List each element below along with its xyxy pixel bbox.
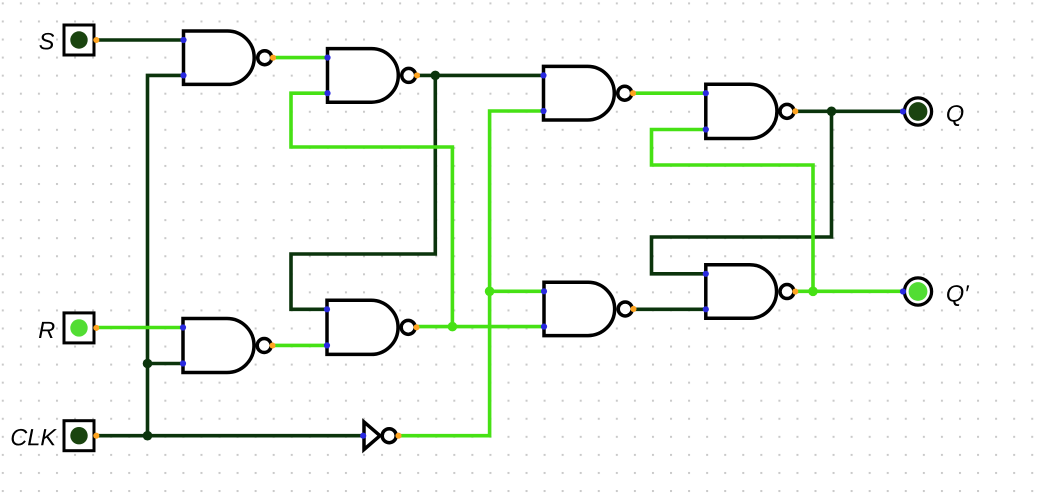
- wire Q feedback to G6.a: [652, 111, 832, 273]
- NAND gate G6: [706, 265, 794, 319]
- G6 output pin: [792, 289, 798, 295]
- G5R input pins: [541, 288, 547, 330]
- wire G6 out to Qprime: [795, 289, 902, 293]
- NAND gate G1: [184, 31, 272, 84]
- NAND gate G4: [706, 84, 794, 138]
- input pin R: [64, 313, 99, 343]
- input pin CLK: [64, 421, 99, 451]
- G4 input pins: [703, 90, 709, 133]
- wire G3 out to G4.a: [633, 91, 706, 95]
- wire G5M out feedback to G2.b: [291, 93, 452, 326]
- G3 output pin: [630, 90, 636, 96]
- G4 output pin: [792, 108, 798, 114]
- G6 input pins: [703, 271, 709, 313]
- wire S to G1.a: [97, 38, 184, 42]
- input pin S: [64, 25, 99, 55]
- G5M output pin: [413, 324, 419, 330]
- NAND gate G3: [544, 66, 632, 120]
- NAND gate G5L: [183, 319, 271, 373]
- junction CLK riser at CLK line: [143, 431, 153, 441]
- wire G5L out to G5M.b: [273, 344, 328, 348]
- output pin Q: [900, 98, 932, 125]
- wire G5M out to G5R.b: [417, 325, 545, 329]
- junction Q branch: [827, 107, 837, 117]
- output pin Qprime: [900, 278, 932, 305]
- wire CLKinv tap to G5R.a: [490, 289, 544, 293]
- junction G2 out branch: [431, 71, 441, 81]
- G2 output pin: [414, 72, 420, 78]
- junction CLKinv riser branch: [485, 287, 495, 297]
- wire G4 out to Q: [795, 110, 903, 114]
- label Qprime: [947, 285, 969, 306]
- junction CLK riser at G5L.b tap: [143, 359, 153, 369]
- G3 input pins: [540, 72, 546, 114]
- wire R to G5L.a: [97, 326, 183, 330]
- G5L input pins: [180, 324, 186, 366]
- NAND gate G2: [328, 49, 416, 103]
- junction G5M out branch: [448, 322, 458, 332]
- wire Qprime feedback to G4.b: [652, 130, 814, 292]
- label Q: [947, 105, 963, 126]
- label CLK: [12, 429, 57, 446]
- G1 output pin: [270, 55, 276, 61]
- NAND gate G5M: [327, 300, 415, 354]
- wire G2 out to G3.a: [417, 74, 544, 78]
- G5R output pin: [630, 306, 636, 312]
- G2 input pins: [324, 55, 330, 97]
- wire CLK riser to G1.b: [148, 75, 184, 435]
- label R: [39, 322, 55, 338]
- inverter U1 (CLK): [360, 422, 401, 450]
- wire G2 out to G5M.a: [291, 75, 435, 309]
- wire CLK tap to G5L.b: [148, 362, 184, 366]
- NAND gate G5R: [544, 282, 632, 335]
- G5M input pins: [324, 306, 330, 348]
- G1 input pins: [180, 37, 186, 79]
- wire G5R out to G6.b: [634, 307, 706, 311]
- wire G1 out to G2.a: [273, 56, 328, 60]
- junction Qprime branch: [808, 287, 818, 297]
- label S: [39, 33, 54, 50]
- G5L output pin: [269, 342, 275, 348]
- wire CLK to inverter: [97, 434, 363, 438]
- wire inverter out riser: [399, 111, 544, 436]
